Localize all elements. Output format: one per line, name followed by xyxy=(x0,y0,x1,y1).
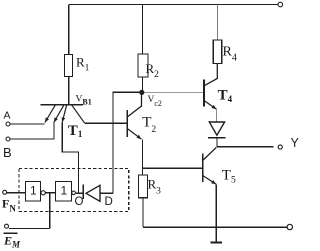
wire tap to EM xyxy=(49,193,51,229)
wire Vc2 node to D riser xyxy=(113,92,140,193)
ground symbol xyxy=(211,241,223,243)
wire R1 top xyxy=(68,5,70,55)
diode D2 anode triangle xyxy=(209,122,224,135)
svg-text:Y: Y xyxy=(291,136,300,150)
wire R3 bottom xyxy=(142,198,144,227)
enable network dashed box xyxy=(19,169,129,212)
ground rail xyxy=(143,226,287,228)
ground rail terminal xyxy=(287,224,292,229)
svg-text:R4: R4 xyxy=(223,45,237,64)
transistor T2 base bar xyxy=(126,110,128,137)
wire input B xyxy=(10,123,54,140)
T1 emitter 1 xyxy=(45,105,55,122)
resistor R3 xyxy=(139,175,148,198)
svg-text:O: O xyxy=(75,196,84,208)
svg-text:1: 1 xyxy=(30,184,37,198)
inverter 2 bubble xyxy=(72,191,76,195)
transistor T4 base bar xyxy=(203,79,205,106)
inverter 1 box xyxy=(26,182,41,202)
wire T1 collector to T2 base xyxy=(85,122,127,124)
Vcc top rail xyxy=(69,4,278,6)
EM terminal xyxy=(5,224,9,228)
input B terminal xyxy=(6,137,10,141)
wire T4 emitter to diode xyxy=(216,109,218,122)
wire FN to inverter 1 xyxy=(7,192,25,194)
label EM overline xyxy=(4,232,18,234)
wire R4 top xyxy=(216,5,218,41)
svg-text:D: D xyxy=(105,196,113,208)
svg-text:1: 1 xyxy=(61,184,68,198)
wire bubble1 to inverter 2 xyxy=(46,192,56,194)
svg-text:R3: R3 xyxy=(148,177,162,197)
wire diode D1 anode to riser xyxy=(100,192,113,194)
resistor R1 xyxy=(65,55,73,77)
svg-text:T5: T5 xyxy=(222,167,236,185)
T4 collector xyxy=(204,64,217,86)
inverter 1 bubble xyxy=(41,191,45,195)
wire Vc2 to T4 base xyxy=(144,91,204,93)
diode D1 triangle xyxy=(86,185,100,201)
T2 emitter xyxy=(127,129,141,140)
wire R2 bottom xyxy=(142,77,144,92)
input A terminal xyxy=(6,122,10,126)
wire input A xyxy=(10,123,44,125)
wire bubble2 to diode D1 xyxy=(76,192,83,194)
wire R2 top xyxy=(142,5,144,55)
input FN terminal xyxy=(3,190,7,194)
svg-text:Vc2: Vc2 xyxy=(148,95,162,108)
wire EM xyxy=(9,227,50,229)
T1 collector xyxy=(72,105,85,123)
wire diode to output node xyxy=(216,138,218,147)
diode D1 cathode bar xyxy=(82,185,84,200)
wire T1 emitter3 to enable gate xyxy=(62,122,78,193)
wire T5 emitter to ground xyxy=(215,184,217,241)
T4 emitter xyxy=(204,101,217,110)
resistor R4 xyxy=(213,40,221,64)
T1 emitter 2 xyxy=(54,105,64,122)
output wire Y xyxy=(217,146,274,148)
resistor R2 xyxy=(138,54,148,77)
inverter 2 box xyxy=(56,182,72,202)
T1 emitter 3 xyxy=(62,105,66,122)
transistor T5 base bar xyxy=(202,153,204,181)
svg-text:EM: EM xyxy=(3,234,21,250)
svg-text:T1: T1 xyxy=(68,123,83,139)
svg-text:T2: T2 xyxy=(142,114,156,135)
svg-text:FN: FN xyxy=(2,197,16,214)
svg-text:B: B xyxy=(3,145,12,160)
wire R1 to T1 base xyxy=(68,77,70,105)
Vcc terminal xyxy=(278,2,283,7)
output terminal Y xyxy=(278,145,282,149)
T5 emitter xyxy=(203,176,217,185)
junction Vc2 xyxy=(139,90,144,95)
svg-text:A: A xyxy=(4,110,11,122)
svg-text:T4: T4 xyxy=(218,88,233,105)
wire T2 emitter down xyxy=(142,140,144,176)
wire to T5 base xyxy=(143,167,203,169)
T2 collector xyxy=(127,95,141,118)
diode D2 cathode bar xyxy=(208,137,226,139)
transistor T1 base bar xyxy=(41,104,83,106)
T5 collector xyxy=(203,147,217,160)
svg-text:R1: R1 xyxy=(76,55,90,74)
